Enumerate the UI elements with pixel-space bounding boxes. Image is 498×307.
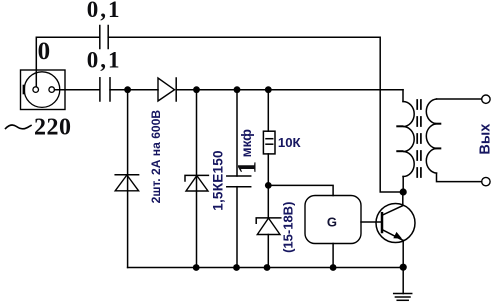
wire secondary bottom to terminal [437, 173, 482, 182]
wire branch3 lower [236, 187, 238, 268]
wire branch1 vertical [127, 90, 129, 268]
transistor VT1 collector [382, 192, 403, 215]
socket XS1 right pin [49, 87, 55, 93]
transformer T1 primary lead bottom [402, 177, 404, 193]
transistor VT1 base bar [381, 213, 384, 232]
transformer T1 primary lead top [402, 90, 404, 102]
socket XS1 circle [24, 72, 60, 108]
svg-text:Вых: Вых [477, 124, 493, 155]
capacitor C2 plate left [99, 78, 101, 101]
svg-text:1,5КЕ150: 1,5КЕ150 [211, 150, 226, 211]
diode VD1 cathode bar [175, 78, 177, 101]
node bottom branch4 [264, 264, 271, 271]
transformer T1 secondary winding [426, 99, 436, 173]
svg-text:0,1: 0,1 [87, 47, 122, 72]
svg-text:10К: 10К [278, 135, 302, 150]
wire branch4 lower [267, 235, 269, 268]
diode VD2 triangle [115, 175, 138, 191]
socket XS1 side contact [23, 86, 26, 93]
node bottom branch3 [233, 264, 240, 271]
capacitor C1 plate left [99, 26, 101, 49]
wire branch4 upper [267, 90, 269, 132]
svg-text:0: 0 [38, 38, 51, 65]
transformer T1 primary winding [403, 102, 414, 177]
wire branch4 middle [267, 154, 269, 218]
diode VD1 triangle [158, 78, 175, 101]
wire socket right pin to C2 [55, 89, 100, 91]
node branch3 top [234, 86, 241, 93]
svg-text:G: G [327, 214, 337, 229]
bottom wire [128, 267, 403, 269]
socket XS1 left pin [33, 87, 39, 93]
zener VD4 triangle [257, 218, 280, 234]
capacitor C3 plate bottom [227, 186, 251, 188]
transistor VT1 circle [376, 204, 415, 243]
socket XS1 square [21, 70, 66, 110]
svg-text:2шт. 2А на 600В: 2шт. 2А на 600В [149, 110, 163, 204]
zener VD3 triangle [186, 176, 208, 191]
resistor R1 mark2 [266, 143, 273, 145]
capacitor C2 plate right [109, 78, 111, 101]
svg-text:220: 220 [34, 115, 72, 141]
wire branch2 vertical [196, 90, 198, 268]
node bottom emitter [400, 264, 407, 271]
wire emitter down [402, 241, 404, 294]
svg-text:0,1: 0,1 [87, 0, 122, 22]
node branch4 to G [265, 182, 272, 189]
zener VD3 cathode bar with hook [185, 175, 208, 181]
capacitor C1 plate right [107, 26, 109, 49]
generator G box [305, 196, 361, 244]
wire socket left pin to top wire [36, 37, 99, 87]
svg-text:мкф: мкф [239, 129, 254, 158]
resistor R1 body [263, 131, 275, 154]
wire node to G box top [268, 185, 333, 195]
node collector junction [400, 188, 407, 195]
transformer T1 primary cusp tick 2 [397, 150, 402, 152]
diode VD2 cathode bar [115, 174, 138, 176]
wire secondary top to terminal [437, 98, 482, 100]
transformer T1 primary cusp tick 1 [397, 125, 402, 127]
middle wire VD1 to transformer [176, 89, 403, 91]
output terminal bottom [482, 177, 490, 185]
node branch2 top [193, 86, 200, 93]
tilde of ~220 [6, 125, 32, 129]
wire top C1 to right corner [108, 37, 403, 192]
wire G box bottom [332, 244, 334, 268]
resistor R1 mark1 [266, 138, 273, 140]
transformer T1 core [416, 96, 418, 184]
node bottom branch2 [193, 264, 200, 271]
wire C2 to diode VD1 [110, 89, 158, 91]
zener VD4 cathode bar with hook [256, 218, 281, 223]
transistor VT1 emitter [382, 230, 403, 241]
transistor VT1 emitter arrow [393, 232, 402, 239]
transformer T1 secondary cusp tick 2 [435, 147, 440, 149]
wire G box to transistor base [361, 221, 382, 223]
node bottom G [330, 264, 337, 271]
svg-text:1: 1 [232, 161, 261, 174]
wire branch3 upper [236, 90, 238, 176]
node branch4 top [265, 86, 272, 93]
node at C2 output [124, 86, 131, 93]
svg-text:(15-18В): (15-18В) [280, 202, 295, 253]
transformer T1 secondary cusp tick 1 [435, 123, 440, 125]
ground symbol [394, 293, 412, 295]
output terminal top [482, 95, 490, 103]
capacitor C3 plate top [227, 175, 251, 177]
